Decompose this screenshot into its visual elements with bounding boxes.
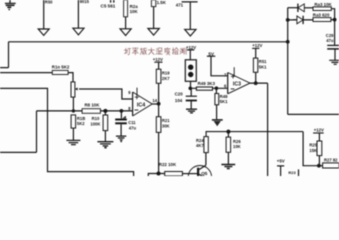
capacitor C5 (plates at top edge) bbox=[111, 0, 114, 3]
svg-text:47u: 47u bbox=[326, 38, 334, 43]
wire (minus rail left corner) bbox=[0, 111, 37, 152]
svg-text:100K: 100K bbox=[90, 122, 100, 127]
ground (R18) bbox=[66, 140, 80, 144]
node junction (IC3 minus node) bbox=[215, 86, 219, 90]
svg-text:R51: R51 bbox=[259, 59, 267, 64]
svg-text:R49 3K3: R49 3K3 bbox=[198, 81, 216, 86]
wire (left input) bbox=[0, 72, 52, 74]
svg-text:+12V: +12V bbox=[153, 57, 163, 62]
svg-text:14: 14 bbox=[152, 98, 157, 103]
diode D2 (cathode right) bbox=[302, 16, 304, 24]
resistor R2a bbox=[124, 0, 128, 17]
label 功率放大温度检测 (red heading) bbox=[124, 48, 186, 55]
node junction (R25/R27) bbox=[317, 164, 321, 168]
ground (C11) bbox=[116, 136, 126, 140]
off-page arrow (1.5K net) bbox=[148, 29, 159, 36]
ground (R49 5K1, hatched) bbox=[212, 119, 223, 121]
off-page arrow (R50 net) bbox=[38, 29, 49, 35]
svg-text:8: 8 bbox=[128, 106, 131, 111]
pin stub (IC3 top) bbox=[233, 67, 235, 75]
capacitor C29 bbox=[327, 44, 339, 46]
wire (vertical, net 9015) bbox=[77, 0, 79, 28]
transistor Q5 bbox=[188, 166, 211, 189]
wire (IC3 output) bbox=[250, 82, 268, 84]
svg-text:R27 82: R27 82 bbox=[324, 158, 338, 163]
node junction (sensor node) bbox=[189, 87, 193, 91]
ground (top-left earth symbol) bbox=[5, 0, 16, 10]
svg-text:+12V: +12V bbox=[314, 127, 324, 132]
wire (IC4 output) bbox=[152, 103, 158, 105]
capacitor C20 bbox=[190, 88, 192, 96]
node junction (IC3 output node) bbox=[254, 81, 258, 85]
resistor R26 10K bbox=[227, 132, 229, 138]
wire (R49 3K3 to IC3 minus) bbox=[190, 87, 227, 89]
wire (5V to IC3 plus) bbox=[211, 56, 228, 76]
node junction (trimpot/R18) bbox=[72, 109, 75, 112]
resistor R27 bbox=[319, 165, 323, 167]
node 471 (T stub) bbox=[182, 1, 198, 3]
svg-text:R50: R50 bbox=[45, 0, 53, 4]
wire (+12V collector rail) bbox=[206, 132, 303, 137]
svg-text:C5 561: C5 561 bbox=[101, 3, 116, 8]
ground (R10) bbox=[97, 142, 113, 146]
svg-text:R10: R10 bbox=[92, 116, 100, 121]
node junction (R10 tap) bbox=[103, 109, 107, 113]
wire (R22 to Q5 base) bbox=[182, 173, 197, 175]
svg-text:R19: R19 bbox=[162, 71, 170, 76]
svg-text:R26: R26 bbox=[233, 139, 241, 144]
wire (rail left corner down) bbox=[0, 42, 9, 68]
wire (471 stub down) bbox=[189, 2, 191, 29]
diode D1 (cathode left) bbox=[297, 4, 299, 12]
svg-text:Ra3 10K: Ra3 10K bbox=[314, 2, 332, 7]
svg-text:R21: R21 bbox=[162, 118, 170, 123]
svg-text:Ra3 620: Ra3 620 bbox=[313, 13, 330, 18]
wire (IC3 output down to bottom edge) bbox=[267, 83, 269, 176]
resistor R49 5K1 bbox=[215, 88, 217, 94]
node junction (IC4 output node) bbox=[157, 102, 161, 106]
connector CN (temperature sensor, 2 pins) bbox=[185, 60, 196, 82]
resistor 1.5K (cut at top edge) bbox=[151, 0, 155, 7]
svg-text:2K7: 2K7 bbox=[162, 76, 170, 81]
svg-text:+12V: +12V bbox=[252, 43, 262, 48]
svg-text:C11: C11 bbox=[128, 120, 136, 125]
resistor R24 4K7 bbox=[205, 153, 207, 166]
svg-text:C20: C20 bbox=[175, 92, 184, 97]
svg-text:+5V: +5V bbox=[277, 159, 285, 164]
resistor R25 15K bbox=[317, 141, 322, 156]
svg-text:5K1: 5K1 bbox=[259, 65, 267, 70]
svg-text:10K: 10K bbox=[130, 9, 139, 14]
svg-text:9015: 9015 bbox=[80, 0, 90, 4]
svg-text:R23: R23 bbox=[288, 170, 296, 175]
wire (resistor right ends down to C29) bbox=[331, 9, 335, 45]
wire (trimpot bottom to R8 rail) bbox=[72, 97, 74, 111]
wire (vertical, net R50) bbox=[43, 0, 45, 29]
op-amp IC4 bbox=[132, 92, 134, 116]
svg-text:6: 6 bbox=[224, 83, 227, 88]
svg-text:47u: 47u bbox=[129, 126, 137, 131]
off-page arrow (R2a net) bbox=[120, 29, 131, 36]
resistor Ra3 620 bbox=[313, 18, 331, 22]
wire (connector to node) bbox=[190, 81, 192, 88]
svg-text:Q5: Q5 bbox=[201, 171, 208, 176]
svg-text:104: 104 bbox=[175, 98, 183, 103]
svg-text:7: 7 bbox=[224, 73, 227, 78]
trimmer RP (vertical body with wiper) bbox=[71, 82, 75, 97]
svg-text:30K: 30K bbox=[162, 124, 170, 129]
svg-text:R1o 5K2: R1o 5K2 bbox=[52, 65, 70, 70]
ground (C20) bbox=[186, 109, 197, 113]
resistor R1o 5K2 bbox=[52, 70, 68, 74]
resistor Ra3 10K bbox=[313, 7, 331, 11]
svg-text:10K: 10K bbox=[233, 144, 241, 149]
wire (1.5K to arrow) bbox=[153, 7, 155, 29]
svg-text:R8 10K: R8 10K bbox=[85, 103, 101, 108]
wire (to diode D1) bbox=[288, 7, 298, 9]
wire (wiper to IC4 plus) bbox=[79, 89, 133, 99]
off-page arrow (471 net) bbox=[185, 29, 196, 36]
svg-text:R22 10K: R22 10K bbox=[159, 162, 177, 167]
off-page arrow (9015 net) bbox=[73, 28, 84, 35]
wire (R2a to arrow) bbox=[125, 17, 127, 29]
node junction (R21 bottom) bbox=[157, 172, 161, 176]
svg-text:+12V: +12V bbox=[186, 45, 196, 50]
svg-text:R24: R24 bbox=[196, 138, 204, 143]
resistor R10 100K bbox=[104, 111, 106, 115]
capacitor C11 47u bbox=[120, 111, 122, 118]
wire (rail corner down to R27 node) bbox=[303, 132, 319, 166]
node junction (R26 tap) bbox=[226, 130, 230, 134]
node junction (rail / diode branch) bbox=[286, 40, 290, 44]
resistor R8 10K bbox=[82, 109, 100, 114]
svg-text:4K7: 4K7 bbox=[196, 143, 204, 148]
node junction (diode D2 tap) bbox=[286, 18, 290, 22]
op-amp IC3 bbox=[227, 73, 229, 94]
node junction (C11 tap) bbox=[120, 109, 124, 113]
svg-text:15K: 15K bbox=[309, 148, 317, 153]
svg-text:IC4: IC4 bbox=[137, 102, 145, 108]
wire (diode branch vertical) bbox=[287, 8, 289, 115]
wire (to diode D2) bbox=[288, 19, 297, 21]
svg-text:R25: R25 bbox=[309, 142, 317, 147]
svg-text:IC3: IC3 bbox=[233, 82, 241, 88]
pin stub (IC4 top) bbox=[136, 88, 138, 96]
wire (base rail bottom) bbox=[148, 174, 164, 177]
resistor R21 30K bbox=[158, 104, 160, 117]
wire (IC4 minus rail) bbox=[37, 110, 133, 112]
ground (C29) bbox=[329, 60, 339, 64]
wire (stub bottom right) bbox=[298, 169, 300, 176]
svg-text:471: 471 bbox=[176, 3, 184, 8]
wire (left loop: input A) bbox=[0, 88, 134, 176]
node junction (Ra3 620 / C29) bbox=[333, 18, 337, 22]
resistor R22 10K bbox=[165, 172, 183, 176]
resistor R19 2K7 bbox=[156, 69, 161, 83]
resistor R18 bbox=[71, 115, 76, 128]
svg-text:9: 9 bbox=[128, 90, 131, 95]
wire (main horizontal rail) bbox=[9, 41, 288, 43]
wire (diode branch exit right) bbox=[288, 113, 339, 115]
svg-text:5K1: 5K1 bbox=[220, 99, 228, 104]
resistor R51 bbox=[253, 58, 257, 72]
wire (R1o to trimpot) bbox=[68, 73, 73, 82]
ground (R26) bbox=[221, 165, 235, 169]
svg-text:R1B: R1B bbox=[77, 116, 85, 121]
svg-text:1.5K: 1.5K bbox=[157, 0, 167, 5]
svg-text:5K2: 5K2 bbox=[77, 121, 85, 126]
